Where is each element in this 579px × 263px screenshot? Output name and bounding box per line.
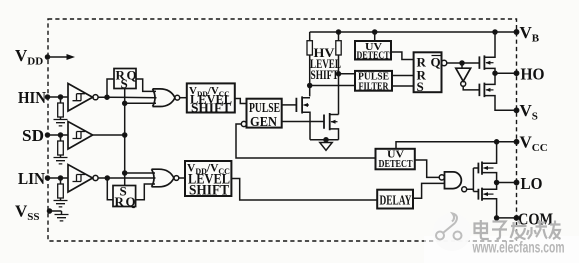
resistor LIN pulldown	[58, 184, 64, 198]
watermark logo circle	[433, 213, 471, 251]
svg-text:GEN: GEN	[250, 115, 277, 130]
svg-text:LO: LO	[521, 174, 543, 193]
wire driver out to low gate	[463, 86, 479, 90]
transistor Q4 HO low nmos	[479, 83, 484, 98]
wire HIN buffer out to NOR	[98, 96, 156, 99]
wire pulse source rail	[310, 139, 339, 141]
pin VSS dot	[48, 209, 52, 213]
block PULSE FILTER box	[355, 71, 392, 91]
gate G1 upper NOR	[153, 89, 176, 107]
latch U6 RS latch box	[414, 52, 442, 92]
wire UV detect high to rail	[374, 32, 376, 41]
wire VDD arrow	[48, 56, 69, 58]
ground SD	[54, 158, 68, 164]
block lower LEVEL SHIFT box	[185, 161, 231, 196]
wire latch U4 Q to NOR	[136, 79, 156, 91]
wire VCC rail	[396, 142, 517, 149]
resistor HV left	[307, 41, 312, 55]
wire G1 out to level shift	[180, 97, 187, 99]
watermark overlay lightening	[424, 236, 579, 263]
pin VCC dot	[514, 140, 518, 144]
svg-text:HO: HO	[521, 65, 545, 84]
gate G3 NAND driver	[439, 175, 444, 180]
wire VSS	[50, 211, 62, 214]
wire HIN input	[48, 96, 69, 98]
svg-text:SHIFT: SHIFT	[189, 183, 229, 199]
node SD bus to upper NOR tap	[123, 101, 127, 105]
svg-text:DETECT: DETECT	[379, 159, 413, 170]
node HV right tap	[337, 72, 341, 76]
wire SD tap to lower NOR	[125, 172, 155, 174]
node HV left tap	[308, 84, 312, 88]
latch U4 (HIN/SD latch) box	[114, 69, 136, 89]
resistor HIN pulldown	[58, 103, 64, 117]
wire LIN to latch R	[107, 178, 113, 200]
node LIN resistor tap	[59, 176, 63, 180]
wire HV left leg	[302, 32, 310, 98]
node VB rail right resistor	[337, 30, 341, 34]
svg-text:S: S	[417, 79, 424, 94]
watermark text fa (发)	[511, 220, 527, 239]
svg-text:R: R	[115, 194, 125, 209]
bubble RS latch Qbar	[441, 60, 446, 65]
wire Qbar to ho driver gates	[447, 62, 480, 64]
pin LIN dot	[46, 176, 50, 180]
ground LIN	[54, 201, 68, 207]
wire SD buffer out	[93, 134, 125, 136]
svg-text:Q: Q	[127, 68, 137, 83]
node HIN resistor tap	[59, 95, 63, 99]
node SD resistor tap	[59, 133, 63, 137]
wire LIN input	[48, 177, 69, 179]
wire HV right tap to pulse filter	[339, 73, 356, 75]
block PULSE GEN box	[247, 99, 282, 128]
node pulse ground	[324, 138, 328, 142]
svg-text:FILTER: FILTER	[359, 81, 390, 93]
watermark text you (友)	[549, 221, 561, 240]
svg-text:HIN: HIN	[18, 88, 47, 107]
block UV DETECT high box	[355, 41, 391, 60]
watermark text zi (子)	[492, 222, 507, 240]
watermark text dian (电)	[475, 220, 561, 239]
node SD bus to lower NOR tap	[123, 171, 127, 175]
svg-text:LIN: LIN	[18, 169, 46, 188]
node VB rail output fet	[493, 30, 497, 34]
buffer U1 HIN schmitt trigger	[68, 84, 93, 112]
svg-text:www.elecfans.com: www.elecfans.com	[472, 240, 565, 257]
svg-text:Q: Q	[126, 194, 136, 209]
pin VS dot	[514, 108, 518, 112]
watermark text shao (烧)	[527, 220, 547, 239]
wire VB rail	[310, 31, 517, 33]
node VB rail UV detect	[373, 30, 377, 34]
wire latch U5 Q to NOR	[136, 184, 155, 200]
svg-text:Q: Q	[431, 55, 441, 70]
wire pulse filter to latch R2	[392, 75, 414, 77]
latch U5 (LIN latch) box	[113, 186, 136, 207]
pin VDD dot	[46, 55, 50, 59]
node Qbar split	[460, 61, 464, 65]
pin SD dot	[46, 133, 50, 137]
node HIN latch branch	[105, 95, 109, 99]
pin LO dot	[514, 180, 518, 184]
block UV DETECT low box	[376, 149, 415, 170]
svg-text:PULSE: PULSE	[249, 101, 280, 116]
transistor Q1 HV pulse nmos	[296, 96, 302, 113]
buffer U3 LIN schmitt trigger	[68, 165, 93, 193]
svg-text:DELAY: DELAY	[380, 193, 412, 208]
wire LIN buffer out to NOR	[98, 177, 155, 179]
node SD bus joins SD input	[123, 133, 127, 137]
resistor HV right	[336, 41, 341, 55]
wire lower LS to delay	[231, 179, 377, 201]
transistor Q5 LO high nmos	[478, 162, 482, 175]
wire pulse gen out1 to Q1 gate	[282, 104, 297, 106]
buffer U2 SD schmitt trigger	[68, 122, 93, 150]
node LO	[495, 181, 499, 185]
wire HV left tap to pulse filter	[310, 85, 355, 87]
pin VB dot	[514, 30, 518, 34]
block upper LEVEL SHIFT box	[187, 83, 235, 112]
gate G2 lower NOR	[152, 169, 174, 187]
svg-text:DETECT: DETECT	[357, 51, 390, 62]
node COM corner	[495, 216, 499, 220]
node HO	[493, 71, 497, 75]
ground VSS	[55, 215, 69, 221]
wire SD input	[48, 134, 69, 136]
wire LO out	[497, 182, 517, 184]
pin COM dot	[514, 216, 518, 220]
ground HIN	[54, 120, 68, 126]
block DELAY box	[377, 190, 413, 209]
wire HIN to latch R	[107, 79, 114, 97]
driver U7 inverter triangle	[461, 63, 463, 68]
pin HIN dot	[46, 95, 50, 99]
transistor Q3 HO high nmos	[479, 55, 484, 70]
wire pulse filter to latch S	[392, 85, 414, 87]
wire HO out	[495, 72, 517, 74]
wire UV detect high to latch R1	[391, 52, 414, 60]
bubble pulse gen inverted out	[241, 121, 246, 126]
wire UV detect low to nand	[415, 160, 439, 177]
ground HV pulse (triangle)	[320, 140, 332, 151]
node LIN latch branch	[105, 176, 109, 180]
wire SD vertical bus	[124, 89, 126, 186]
wire G2 out to lower LS	[179, 177, 185, 179]
wire pulse gen inverted to UV detect low	[236, 124, 376, 158]
wire upper LS to pulse gen	[235, 99, 247, 104]
wire HV right leg	[338, 32, 340, 115]
transistor Q2 HV pulse nmos	[324, 113, 330, 130]
resistor SD pulldown	[58, 141, 64, 155]
IC package boundary (dashed)	[48, 19, 517, 241]
wire nand out to lo gates	[467, 168, 479, 192]
node VCC rail output fet	[495, 140, 499, 144]
svg-text:SHIFT: SHIFT	[311, 68, 339, 82]
pin HO dot	[514, 71, 518, 75]
svg-text:S: S	[121, 76, 128, 91]
wire pulse gen out2 to Q2 gate	[282, 121, 324, 123]
wire SD tap to upper NOR	[125, 102, 156, 104]
transistor Q6 LO low nmos	[478, 188, 482, 201]
wire delay to nand	[413, 183, 445, 198]
svg-text:SHIFT: SHIFT	[191, 100, 231, 115]
svg-text:SD: SD	[22, 126, 44, 145]
